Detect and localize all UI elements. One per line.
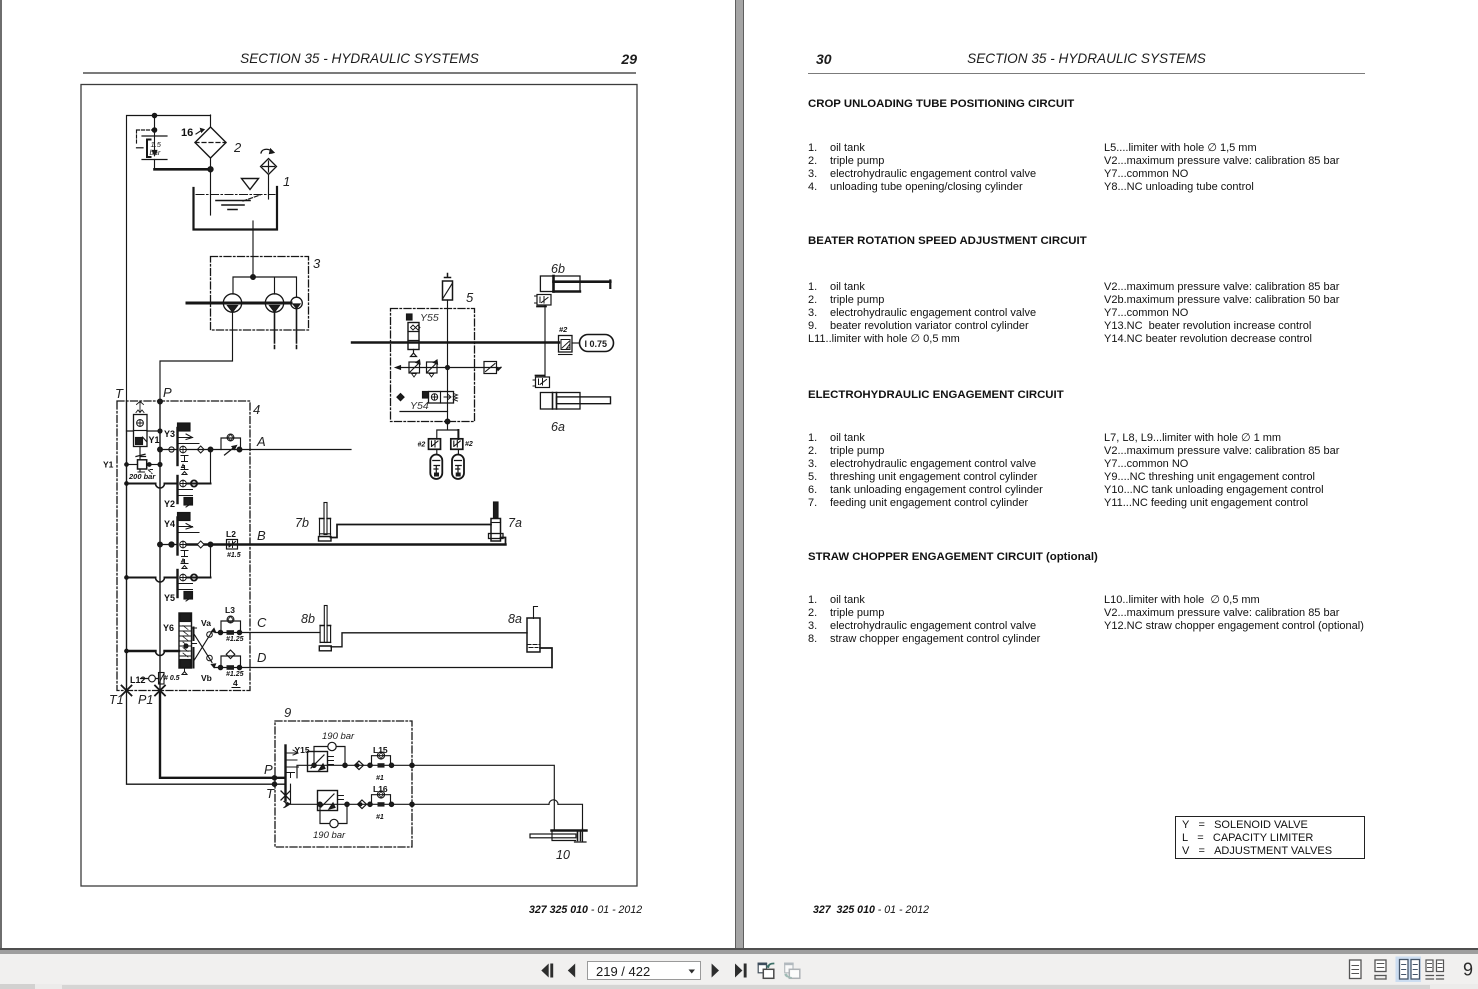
node section5 outlet: [445, 419, 450, 424]
pump group box 3: [211, 257, 309, 331]
flow regulator I 0.75: [580, 335, 614, 352]
label #2 left: [418, 442, 426, 449]
label 10: [556, 848, 570, 862]
svg-text:#1: #1: [376, 814, 384, 821]
wire lower rail to cylinder 10: [558, 804, 583, 828]
wire P1 drop to box 9: [160, 691, 284, 778]
tank oil level: [196, 195, 275, 210]
capacity limiter L15: [372, 752, 391, 768]
cylinder 10: [530, 829, 587, 843]
wire Y2 feed: [127, 450, 211, 489]
svg-text:8a: 8a: [508, 612, 522, 626]
middle page gap strip: [735, 0, 744, 949]
value label 1.5 bar: [150, 140, 162, 157]
solenoid valve Y1: [127, 402, 161, 460]
label L16: [373, 784, 388, 794]
filter 2: [195, 115, 226, 215]
wire 8a to D: [540, 648, 552, 668]
label T1: [109, 693, 124, 707]
node relief lower: [318, 802, 349, 806]
pump P3: [291, 297, 303, 309]
solenoid valve Y55: [407, 314, 421, 357]
svg-text:5: 5: [466, 290, 474, 305]
limiter block L14: [535, 295, 552, 307]
limiter block left #2: [429, 439, 441, 450]
capacity limiter L1: [221, 434, 241, 455]
pump P2: [265, 294, 283, 312]
svg-text:#1: #1: [376, 775, 384, 782]
label 16 arrow: [196, 129, 204, 135]
capacity limiter L4: [221, 650, 241, 670]
svg-text:I 0.75: I 0.75: [585, 339, 608, 349]
svg-text:Y2: Y2: [164, 499, 175, 509]
svg-text:C: C: [257, 615, 267, 630]
label Y3: [164, 429, 175, 439]
label 3: [313, 256, 321, 271]
svg-text:#1.5: #1.5: [227, 552, 241, 559]
label #0.5: [164, 675, 180, 682]
icon two page continuous: [1426, 960, 1444, 979]
tank 1: [194, 187, 278, 230]
svg-text:L3: L3: [225, 605, 235, 615]
coupler left: [430, 449, 442, 479]
relief row wire: [396, 366, 499, 370]
svg-text:3: 3: [313, 256, 321, 271]
svg-text:bar: bar: [150, 148, 161, 157]
svg-text:#1.25: #1.25: [226, 671, 244, 678]
label Y54: [410, 400, 429, 412]
label P port: [264, 762, 273, 777]
limiter block L13: [533, 376, 550, 388]
adjustment valve Va: [194, 628, 216, 668]
svg-text:#1.25: #1.25: [226, 636, 244, 643]
svg-text:7b: 7b: [295, 516, 309, 530]
LEFT PAGE header: [83, 51, 636, 66]
wire accumulator drop: [447, 300, 449, 421]
relief valve 190 bar lower: [318, 791, 348, 828]
svg-text:Y5: Y5: [164, 593, 175, 603]
label Y1: [149, 435, 160, 445]
wire upper rail to cylinder 10: [412, 765, 554, 830]
svg-text:# 0.5: # 0.5: [164, 675, 180, 682]
capacity limiter L12: [141, 673, 165, 685]
breather: [261, 149, 277, 199]
icon single page: [1350, 960, 1362, 979]
svg-text:T: T: [266, 786, 275, 801]
svg-text:16: 16: [181, 127, 193, 139]
label Y6: [163, 623, 174, 633]
node relief row crossing: [446, 366, 450, 370]
label 4: [253, 402, 260, 417]
box 9: [275, 721, 412, 847]
node suction junction: [251, 275, 256, 280]
label Va: [201, 618, 211, 628]
solenoid valve Y2: [178, 466, 198, 508]
node 200bar-P: [125, 429, 162, 653]
label Y2: [164, 499, 175, 509]
wire row B: [160, 541, 506, 548]
wire row A: [160, 446, 351, 453]
solenoid valve Y3: [178, 423, 200, 468]
wire Y5 feed: [127, 545, 211, 583]
node L16 junctions: [368, 802, 414, 806]
section5 internal bottom wire: [400, 411, 448, 413]
icon next-view disabled: [784, 963, 800, 979]
svg-text:D: D: [257, 650, 266, 665]
label L12: [130, 675, 146, 685]
wire pump1 outlet to P: [160, 313, 233, 402]
svg-text:L12: L12: [130, 675, 146, 685]
wire T return top: [127, 116, 211, 402]
solenoid valve Y6: [179, 613, 197, 675]
solenoid valve Y5: [178, 560, 198, 602]
wire box9 upper rail: [297, 765, 412, 778]
svg-text:P: P: [163, 385, 172, 400]
node P1 cross: [155, 686, 165, 696]
svg-text:1: 1: [283, 174, 290, 189]
node Y6 feed: [184, 644, 188, 648]
cylinder 8b: [319, 606, 331, 651]
svg-text:Y3: Y3: [164, 429, 175, 439]
label L4: [232, 678, 240, 688]
wire row D: [215, 667, 552, 669]
label #2 right: [465, 441, 473, 448]
wire pump2 outlet stub: [274, 313, 276, 349]
wire Y6 feed: [127, 651, 180, 656]
relief valve Va5: [409, 360, 420, 377]
node P top: [158, 399, 163, 404]
pump P1: [223, 294, 241, 312]
RIGHT PAGE: [816, 51, 832, 67]
svg-text:1.5: 1.5: [151, 140, 162, 149]
svg-text:L15: L15: [373, 745, 388, 755]
svg-text:Vb: Vb: [201, 673, 212, 683]
label Y55: [420, 312, 439, 324]
relief valve Vb5: [427, 360, 438, 377]
label Y1 rotated outside: [103, 460, 114, 470]
left footer: [529, 904, 642, 916]
capacity limiter L16: [372, 791, 391, 807]
label T: [115, 386, 124, 401]
label #1.25 upper: [226, 636, 244, 643]
wire pump3 outlet stub: [296, 309, 298, 349]
label #1 lower: [376, 814, 384, 821]
cylinder 7a: [489, 502, 504, 541]
combo dropdown arrow: [689, 970, 696, 974]
svg-text:#2: #2: [418, 442, 426, 449]
node row D junctions: [218, 665, 241, 669]
label 6a: [551, 420, 565, 434]
check valve upper: [355, 761, 364, 770]
svg-text:T1: T1: [109, 693, 124, 707]
label 5: [466, 290, 474, 305]
icon continuous: [1375, 960, 1386, 979]
node row B junctions: [158, 542, 213, 547]
svg-text:Y1: Y1: [103, 460, 114, 470]
svg-text:Y54: Y54: [410, 400, 429, 412]
manifold box 4: [117, 401, 250, 691]
page combo box: [587, 961, 701, 980]
solenoid valve Y54: [423, 392, 458, 404]
level indicator triangle: [242, 179, 259, 190]
svg-text:B: B: [257, 528, 266, 543]
solenoid valve Y15: [281, 746, 299, 808]
label A: [256, 434, 266, 449]
wire 8b to 8a: [331, 633, 527, 647]
label Y5: [164, 593, 175, 603]
left window border: [0, 0, 2, 949]
node P T entries: [272, 776, 276, 787]
wire bypass to filter drain: [155, 160, 212, 170]
node relief upper: [312, 763, 347, 767]
capacity limiter L3: [221, 616, 241, 635]
pressure switch symbol: [484, 362, 502, 374]
label 9: [284, 705, 291, 720]
TOOLBAR ICONS: [541, 957, 1473, 983]
wire T rail: [126, 401, 128, 691]
restrictor block #2: [559, 336, 580, 355]
cylinder 6a: [540, 393, 610, 410]
icon first-page: [541, 964, 553, 978]
icon prev-page: [568, 964, 575, 978]
label #1 upper: [376, 775, 384, 782]
svg-text:200 bar: 200 bar: [128, 472, 156, 481]
wire pump suction header: [233, 277, 297, 297]
svg-text:Y4: Y4: [164, 519, 175, 529]
wire tank suction: [252, 221, 254, 277]
wire box9 lower rail: [291, 784, 559, 804]
label 190 bar lower: [313, 830, 346, 841]
wire main pressure line: [352, 341, 559, 343]
node T1 cross: [122, 686, 132, 696]
icon two pages selected: [1396, 957, 1422, 983]
svg-text:L2: L2: [226, 529, 236, 539]
node row C junctions: [218, 630, 241, 634]
svg-text:P1: P1: [138, 693, 153, 707]
svg-text:Va: Va: [201, 618, 211, 628]
label T port: [266, 786, 275, 801]
label Y15: [295, 745, 310, 755]
svg-text:Y15: Y15: [295, 745, 310, 755]
wire B riser to 7a: [501, 538, 506, 545]
svg-text:9: 9: [284, 705, 291, 720]
node filter drain: [208, 167, 213, 172]
svg-text:P: P: [264, 762, 273, 777]
coupler right: [452, 449, 464, 479]
wire row C: [215, 632, 320, 634]
label P: [163, 385, 172, 400]
label 8a: [508, 612, 522, 626]
label #2 flow: [559, 325, 568, 334]
svg-text:190 bar: 190 bar: [322, 731, 355, 742]
svg-text:10: 10: [556, 848, 570, 862]
cylinder 6b: [540, 276, 610, 292]
node row A junctions: [158, 447, 242, 452]
label 2: [233, 140, 242, 155]
label 16: [181, 127, 193, 139]
label P1: [138, 693, 153, 707]
wire coupler branch: [437, 422, 459, 440]
label D: [257, 650, 266, 665]
cylinder 8a: [527, 607, 540, 653]
relief valve 200 bar: [127, 454, 161, 473]
label 1: [283, 174, 290, 189]
bottom chrome: [0, 948, 1478, 950]
relief valve 190 bar upper: [308, 742, 346, 771]
bypass valve 1.5 bar: [137, 116, 168, 160]
capacity limiter L2: [227, 540, 238, 550]
svg-text:2: 2: [233, 140, 242, 155]
label 7a: [508, 516, 522, 530]
svg-text:190 bar: 190 bar: [313, 830, 346, 841]
svg-text:4: 4: [253, 402, 260, 417]
wire 6b to junction: [544, 306, 546, 377]
cylinder 7b: [319, 503, 332, 542]
zoom percent text cut: [1463, 960, 1473, 980]
node top junction: [152, 113, 156, 132]
svg-text:6a: 6a: [551, 420, 565, 434]
label 8b: [301, 612, 315, 626]
svg-text:T: T: [115, 386, 124, 401]
diagram frame: [81, 85, 637, 887]
label #1.5: [227, 552, 241, 559]
pump drive shaft: [187, 302, 291, 305]
svg-text:Y6: Y6: [163, 623, 174, 633]
svg-text:#2: #2: [465, 441, 473, 448]
label B: [257, 528, 266, 543]
label C: [257, 615, 267, 630]
label 7b: [295, 516, 309, 530]
label #1.25 lower: [226, 671, 244, 678]
wire T1 drop to box 9: [127, 691, 285, 785]
drain diamond: [397, 394, 404, 401]
svg-text:L16: L16: [373, 784, 388, 794]
label 190 bar upper: [322, 731, 355, 742]
svg-text:4: 4: [233, 678, 238, 688]
svg-text:8b: 8b: [301, 612, 315, 626]
icon last-page: [735, 964, 747, 978]
check valve lower: [358, 800, 367, 809]
svg-text:Y1: Y1: [149, 435, 160, 445]
label L2: [226, 529, 236, 539]
label Vb: [201, 673, 212, 683]
label 200 bar: [128, 472, 156, 481]
limiter block right #2: [451, 439, 463, 450]
label Y4: [164, 519, 175, 529]
solenoid valve Y4: [178, 513, 200, 563]
svg-text:7a: 7a: [508, 516, 522, 530]
wire 7b to 7a: [331, 525, 492, 538]
label L3: [225, 605, 235, 615]
label L15: [373, 745, 388, 755]
label 6b: [551, 262, 565, 276]
wire P rail: [159, 402, 161, 691]
section 5 box: [391, 309, 475, 422]
svg-text:Y55: Y55: [420, 312, 439, 324]
svg-text:A: A: [256, 434, 266, 449]
icon previous-view: [758, 963, 774, 979]
node L15 junctions: [368, 763, 414, 767]
icon next-page: [712, 964, 719, 978]
svg-text:#2: #2: [559, 325, 568, 334]
accumulator: [443, 274, 453, 301]
svg-text:6b: 6b: [551, 262, 565, 276]
